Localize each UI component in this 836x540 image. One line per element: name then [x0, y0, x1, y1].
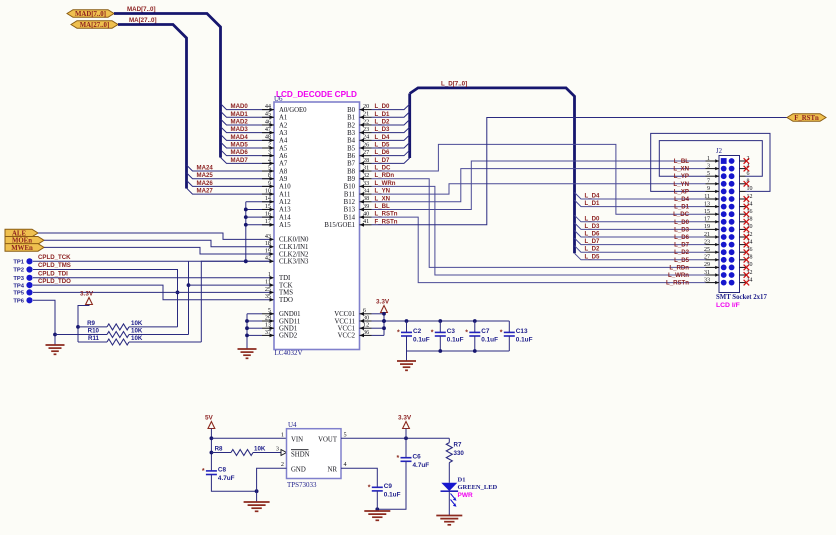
svg-text:R11: R11	[88, 335, 100, 342]
svg-text:F_RSTn: F_RSTn	[375, 218, 398, 225]
svg-text:12: 12	[363, 322, 369, 329]
svg-text:10K: 10K	[131, 328, 143, 335]
svg-text:A8: A8	[279, 168, 288, 175]
pin 48 A4	[262, 139, 274, 141]
svg-text:4: 4	[344, 461, 347, 468]
J2 pin 16	[740, 213, 746, 215]
svg-text:4.7uF: 4.7uF	[218, 475, 235, 482]
svg-text:39: 39	[363, 203, 369, 210]
svg-text:L_D3: L_D3	[585, 223, 601, 230]
svg-text:L_RSTn: L_RSTn	[666, 280, 689, 287]
svg-text:24: 24	[747, 239, 753, 245]
svg-text:L_D3: L_D3	[674, 226, 690, 233]
pin 30 VCC11	[360, 320, 372, 322]
pin 2 A5	[262, 147, 274, 149]
J2 pin 20	[740, 228, 746, 230]
svg-text:L_D1: L_D1	[674, 204, 690, 211]
svg-text:B8: B8	[347, 168, 356, 175]
svg-text:12: 12	[747, 194, 753, 200]
J2 pin 34	[740, 282, 746, 284]
pin 21 B1	[360, 116, 372, 118]
pin 22 B2	[360, 124, 372, 126]
wire TCK to pin11	[189, 284, 275, 286]
svg-text:L_D7: L_D7	[375, 157, 391, 164]
svg-text:L_D4: L_D4	[585, 193, 601, 200]
svg-text:C7: C7	[481, 328, 490, 335]
svg-text:L_DC: L_DC	[673, 211, 690, 218]
svg-text:A3: A3	[279, 130, 288, 137]
pin 41 B15/GOE1	[360, 224, 372, 226]
wire L_WRn route	[372, 186, 706, 275]
svg-text:2: 2	[268, 141, 271, 148]
svg-text:C2: C2	[413, 328, 422, 335]
svg-text:L_YN: L_YN	[673, 181, 689, 188]
wire GND pins tie	[246, 314, 248, 349]
svg-text:6: 6	[363, 307, 366, 314]
J2 pin 21 L_D6	[706, 236, 720, 238]
ground U4	[244, 501, 270, 503]
resistor R7 330	[448, 438, 450, 442]
svg-text:C6: C6	[413, 454, 422, 461]
svg-text:A0/GOE0: A0/GOE0	[279, 107, 307, 114]
svg-text:36: 36	[363, 329, 369, 336]
svg-text:1: 1	[281, 431, 284, 438]
wire L_D7 into bus	[372, 158, 410, 164]
pin 44 A0/GOE0	[262, 109, 274, 111]
svg-text:L_D4: L_D4	[674, 196, 690, 203]
svg-text:37: 37	[265, 329, 271, 336]
svg-text:CPLD_TDI: CPLD_TDI	[38, 270, 68, 277]
svg-text:U6: U6	[274, 95, 283, 103]
pin 28 B7	[360, 162, 372, 164]
svg-text:LCD I/F: LCD I/F	[716, 302, 740, 309]
pin 43 CLK0/IN0	[270, 238, 275, 242]
svg-text:TCK: TCK	[279, 282, 293, 289]
svg-text:MA24: MA24	[197, 165, 214, 172]
svg-text:CPLD_TDO: CPLD_TDO	[38, 278, 71, 285]
svg-text:TDO: TDO	[279, 297, 293, 304]
svg-text:C9: C9	[384, 483, 393, 490]
svg-text:4: 4	[268, 157, 271, 164]
pin 5 A8	[262, 170, 274, 172]
pin 16 A14	[262, 216, 274, 218]
svg-text:22: 22	[747, 232, 753, 238]
J2 pin 12	[740, 198, 746, 200]
bus L_D[7..0]	[410, 88, 575, 253]
svg-text:TPS73033: TPS73033	[287, 481, 317, 489]
svg-text:GND11: GND11	[279, 318, 300, 325]
svg-text:B5: B5	[347, 145, 356, 152]
svg-text:B4: B4	[347, 138, 356, 145]
J2 pin 27 L_D5	[706, 259, 720, 261]
pin 17 A15	[262, 224, 274, 226]
wire LED cathode	[448, 491, 450, 515]
svg-text:13: 13	[704, 201, 710, 207]
svg-text:B0: B0	[347, 107, 356, 114]
svg-text:L_D1: L_D1	[375, 111, 391, 118]
svg-text:20: 20	[747, 224, 753, 230]
wire L_D0 bus to J2	[575, 215, 706, 222]
bus vertical near U6	[408, 94, 411, 159]
J2 pin 1 L_BL	[706, 160, 720, 162]
capacitor C6 4.7uF	[405, 438, 407, 457]
svg-text:MA26: MA26	[197, 180, 214, 187]
svg-text:R8: R8	[215, 446, 223, 453]
svg-text:GND2: GND2	[279, 333, 298, 340]
svg-text:26: 26	[747, 247, 753, 253]
svg-text:L_D1: L_D1	[585, 200, 601, 207]
wire CPLD_TDI TP3 to TDI pin1	[33, 277, 274, 279]
bus MAD	[114, 14, 221, 158]
J2 pin 7 L_YN	[706, 183, 720, 185]
pin 39 B13	[360, 208, 372, 210]
svg-text:4.7uF: 4.7uF	[413, 462, 430, 469]
svg-text:MA[27..0]: MA[27..0]	[129, 17, 157, 24]
svg-text:L_D5: L_D5	[375, 142, 391, 149]
svg-text:3: 3	[276, 446, 279, 453]
svg-text:B15/GOE1: B15/GOE1	[324, 222, 355, 229]
svg-text:L_D2: L_D2	[375, 118, 391, 125]
J2 pin 29 L_RDn	[706, 266, 720, 268]
svg-text:U4: U4	[288, 421, 297, 429]
port MWEn	[5, 244, 44, 252]
svg-text:*: *	[500, 330, 503, 337]
svg-text:5: 5	[268, 307, 271, 314]
ground C9	[364, 510, 390, 512]
svg-text:TMS: TMS	[279, 290, 293, 297]
wire MA27 bus branch	[187, 188, 275, 194]
svg-text:44: 44	[265, 103, 271, 110]
svg-text:L_XN: L_XN	[375, 195, 391, 202]
J2 pin 5 L_YP	[706, 175, 720, 177]
wire L_D4 bus to J2	[575, 193, 706, 200]
wire L_D2 bus to J2	[575, 246, 706, 253]
svg-text:L_D2: L_D2	[674, 249, 690, 256]
wire R11 to pin42 net	[201, 261, 274, 342]
svg-text:14: 14	[747, 201, 753, 207]
svg-text:L_D6: L_D6	[585, 231, 601, 238]
svg-text:*: *	[368, 485, 371, 492]
svg-text:27: 27	[704, 255, 710, 261]
svg-text:L_D0: L_D0	[585, 215, 601, 222]
pin 18 CLK1/IN1	[270, 245, 275, 249]
svg-text:45: 45	[265, 111, 271, 118]
J2 pin 13 L_D1	[706, 206, 720, 208]
svg-text:GREEN_LED: GREEN_LED	[458, 484, 498, 491]
svg-text:A11: A11	[279, 191, 290, 198]
svg-text:F_RSTn: F_RSTn	[794, 115, 819, 122]
svg-text:R7: R7	[454, 442, 462, 449]
svg-text:B6: B6	[347, 153, 356, 160]
wire MAD2 bus branch	[221, 119, 275, 125]
svg-text:0.1uF: 0.1uF	[384, 492, 401, 499]
svg-text:L_XN: L_XN	[673, 166, 689, 173]
svg-text:C3: C3	[447, 328, 456, 335]
svg-text:29: 29	[704, 262, 710, 268]
svg-text:D1: D1	[458, 477, 466, 484]
port MOEn	[5, 237, 44, 245]
svg-text:A15: A15	[279, 222, 291, 229]
svg-text:A6: A6	[279, 153, 288, 160]
svg-text:31: 31	[704, 270, 710, 276]
svg-text:LCD_DECODE CPLD: LCD_DECODE CPLD	[276, 90, 357, 99]
svg-text:VOUT: VOUT	[318, 436, 338, 443]
svg-text:5V: 5V	[205, 415, 214, 422]
svg-text:L_D0: L_D0	[674, 219, 690, 226]
svg-text:21: 21	[363, 111, 369, 118]
wire L_XN route	[372, 169, 706, 202]
svg-text:L_XP: L_XP	[674, 188, 689, 195]
J2 pin 25 L_D2	[706, 251, 720, 253]
svg-text:MA[27..0]: MA[27..0]	[80, 22, 109, 29]
svg-text:J2: J2	[716, 148, 723, 155]
svg-text:L_D2: L_D2	[585, 246, 601, 253]
pin 26 B5	[360, 147, 372, 149]
svg-text:35: 35	[265, 293, 271, 300]
pin 15 A13	[262, 208, 274, 210]
svg-text:R9: R9	[87, 320, 95, 327]
svg-text:MAD6: MAD6	[231, 149, 249, 156]
wire L_D7 bus to J2	[575, 238, 706, 245]
J2 pin 26	[740, 251, 746, 253]
LED D1 GREEN_LED	[441, 483, 457, 491]
svg-text:MWEn: MWEn	[11, 245, 33, 252]
ground D1	[436, 515, 462, 517]
pin 42 CLK3/IN3	[270, 259, 275, 263]
ground decoupling	[397, 360, 416, 362]
svg-text:TDI: TDI	[279, 275, 291, 282]
svg-text:B7: B7	[347, 161, 356, 168]
svg-text:40: 40	[363, 211, 369, 218]
resistor R10 10K	[55, 334, 107, 336]
svg-text:*: *	[202, 468, 205, 475]
resistor R11 10K	[78, 341, 107, 343]
J2 pin 8	[740, 183, 746, 185]
svg-text:5: 5	[344, 431, 347, 438]
wire L_DC route	[372, 144, 706, 214]
svg-text:34: 34	[747, 277, 753, 283]
svg-text:15: 15	[265, 203, 271, 210]
pin 1 TDI	[270, 276, 275, 280]
regulator U4 TPS73033	[287, 429, 342, 479]
port MAD[7..0]	[67, 10, 114, 18]
pin 29 GND11	[262, 320, 274, 322]
pin 40 B14	[360, 216, 372, 218]
svg-text:16: 16	[747, 209, 753, 215]
svg-text:10K: 10K	[131, 320, 143, 327]
svg-text:16: 16	[265, 211, 271, 218]
svg-text:L_RDn: L_RDn	[375, 172, 395, 179]
wire MAD0 bus branch	[221, 104, 275, 110]
svg-text:48: 48	[265, 134, 271, 141]
svg-text:GND01: GND01	[279, 311, 301, 318]
svg-text:42: 42	[265, 255, 271, 262]
svg-text:L_WRn: L_WRn	[668, 272, 689, 279]
J2 pin 18	[740, 221, 746, 223]
wire L_D1 bus to J2	[575, 200, 706, 207]
svg-text:TP6: TP6	[13, 299, 24, 305]
pin 8 A9	[262, 178, 274, 180]
wire MAD4 bus branch	[221, 134, 275, 140]
svg-text:B2: B2	[347, 122, 356, 129]
svg-text:MAD[7..0]: MAD[7..0]	[127, 6, 156, 13]
svg-text:38: 38	[363, 195, 369, 202]
svg-text:43: 43	[265, 233, 271, 240]
svg-text:*: *	[465, 330, 468, 337]
wire TCK pulldown vertical	[188, 261, 190, 334]
svg-text:10K: 10K	[131, 335, 143, 342]
svg-text:B11: B11	[344, 191, 355, 198]
pin 36 VCC2	[360, 334, 372, 336]
J2 pin 15 L_DC	[706, 213, 720, 215]
svg-text:L_D6: L_D6	[674, 234, 690, 241]
svg-text:9: 9	[707, 186, 710, 192]
svg-text:L_D7: L_D7	[674, 242, 690, 249]
svg-text:MAD[7..0]: MAD[7..0]	[75, 11, 106, 18]
svg-text:L_YN: L_YN	[375, 188, 391, 195]
svg-text:17: 17	[704, 217, 710, 223]
svg-text:L_D5: L_D5	[674, 257, 690, 264]
svg-text:28: 28	[363, 157, 369, 164]
pin 46 A2	[262, 124, 274, 126]
wire L_YN route	[372, 184, 706, 194]
svg-text:25: 25	[265, 286, 271, 293]
wire MOEn to CLK1	[44, 240, 274, 246]
pin 11 TCK	[270, 283, 275, 287]
svg-text:MAD7: MAD7	[231, 157, 249, 164]
capacitor C13 0.1uF	[508, 321, 510, 332]
J2 pin 3 L_XN	[706, 168, 720, 170]
svg-text:LC4032V: LC4032V	[275, 349, 303, 357]
pin 35 TDO	[270, 298, 275, 302]
resistor R9 10K	[78, 326, 107, 328]
svg-text:TP1: TP1	[13, 260, 24, 266]
svg-text:0.1uF: 0.1uF	[516, 337, 533, 344]
svg-text:L_BL: L_BL	[674, 158, 690, 165]
wire L_RDn route	[372, 179, 706, 268]
J2 pin 28	[740, 259, 746, 261]
J2 pin 22	[740, 236, 746, 238]
wire VCC decoupling rail	[384, 320, 509, 322]
wire L_D5 bus to J2	[575, 253, 706, 259]
svg-text:19: 19	[265, 247, 271, 254]
svg-text:28: 28	[747, 255, 753, 261]
J2 pin 14	[740, 206, 746, 208]
svg-text:MA27: MA27	[197, 188, 214, 195]
svg-text:11: 11	[704, 194, 710, 200]
svg-text:25: 25	[704, 247, 710, 253]
svg-text:MAD0: MAD0	[231, 103, 249, 110]
svg-text:*: *	[431, 330, 434, 337]
svg-text:33: 33	[363, 180, 369, 187]
svg-text:A5: A5	[279, 145, 288, 152]
J2 pin 9 L_XP	[706, 190, 720, 192]
svg-text:L_D6: L_D6	[375, 149, 391, 156]
svg-text:TP2: TP2	[13, 268, 24, 274]
svg-text:C13: C13	[516, 328, 528, 335]
J2 pin 10	[740, 190, 746, 192]
svg-text:L_D0: L_D0	[375, 103, 391, 110]
svg-text:10: 10	[265, 187, 271, 194]
wire VCC pins tie	[383, 313, 385, 336]
svg-text:24: 24	[363, 134, 369, 141]
svg-text:SHDN: SHDN	[291, 451, 310, 458]
svg-text:MAD3: MAD3	[231, 126, 249, 133]
svg-text:0.1uF: 0.1uF	[413, 337, 430, 344]
svg-text:B3: B3	[347, 130, 356, 137]
svg-text:B13: B13	[344, 207, 356, 214]
wire CPLD_TCK TP1 to CLK3 pin42	[33, 260, 274, 262]
svg-text:*: *	[397, 455, 400, 462]
power 5V	[208, 422, 215, 429]
svg-text:7: 7	[707, 179, 710, 185]
pin 25 TMS	[270, 291, 275, 295]
wire L_D6 bus to J2	[575, 231, 706, 238]
svg-text:B10: B10	[344, 184, 356, 191]
svg-text:21: 21	[704, 232, 710, 238]
wire MAD6 bus branch	[221, 150, 275, 156]
pin 3 A6	[262, 155, 274, 157]
pin 12 VCC1	[360, 327, 372, 329]
wire L_D0 into bus	[372, 104, 410, 110]
svg-text:330: 330	[454, 450, 465, 457]
bus MA	[118, 25, 187, 189]
svg-text:L_DC: L_DC	[375, 165, 392, 172]
svg-text:34: 34	[363, 187, 369, 194]
capacitor C9 0.1uF	[372, 486, 383, 488]
svg-text:B14: B14	[344, 214, 356, 221]
pin 14 A12	[262, 201, 274, 203]
J2 pin 11 L_D4	[706, 198, 720, 200]
wire MAD7 bus branch	[221, 157, 275, 163]
svg-text:3: 3	[268, 149, 271, 156]
wire L_D3 into bus	[372, 127, 410, 133]
J2 pin 6	[740, 175, 746, 177]
svg-text:15: 15	[704, 209, 710, 215]
svg-text:13: 13	[265, 322, 271, 329]
svg-text:A13: A13	[279, 207, 291, 214]
svg-text:11: 11	[265, 279, 271, 286]
svg-text:6: 6	[747, 171, 750, 177]
svg-text:B1: B1	[347, 115, 355, 122]
svg-text:L_WRn: L_WRn	[375, 180, 396, 187]
svg-text:MAD2: MAD2	[231, 118, 249, 125]
svg-text:*: *	[397, 330, 400, 337]
pin 31 B8	[360, 170, 372, 172]
pin 38 B12	[360, 201, 372, 203]
svg-text:TP5: TP5	[13, 291, 24, 297]
svg-text:MAD5: MAD5	[231, 142, 249, 149]
svg-text:17: 17	[265, 218, 271, 225]
svg-text:3.3V: 3.3V	[376, 299, 390, 306]
pin 13 GND1	[262, 327, 274, 329]
pin 27 B6	[360, 155, 372, 157]
J2 pin 2	[740, 160, 746, 162]
J2 pin 31 L_WRn	[706, 274, 720, 276]
pin 47 A3	[262, 132, 274, 134]
pin 37 GND2	[262, 334, 274, 336]
connector J2 SMT Socket 2x17	[719, 156, 740, 293]
resistor R8 10K	[211, 452, 231, 454]
wire MAD1 bus branch	[221, 111, 275, 117]
power 3.3V out	[403, 422, 410, 429]
svg-text:VCC11: VCC11	[334, 318, 355, 325]
power 3.3V VCC	[381, 306, 388, 313]
svg-text:A2: A2	[279, 122, 288, 129]
svg-text:L_D7: L_D7	[585, 238, 601, 245]
wire L_BL route	[372, 161, 706, 209]
svg-text:VCC1: VCC1	[338, 326, 355, 333]
